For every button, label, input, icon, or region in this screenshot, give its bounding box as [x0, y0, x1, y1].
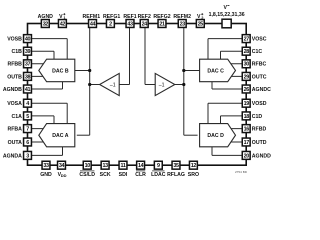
- pin 13 (SCK) box: [101, 161, 109, 169]
- pin 9 (LDAC) box: [154, 161, 162, 169]
- svg-text:DAC B: DAC B: [52, 68, 69, 74]
- wire RFBC to DAC C: [229, 63, 246, 65]
- pin 34 (VDD) box: [58, 161, 66, 169]
- svg-text:4: 4: [26, 101, 29, 107]
- wire AGNDD horizontal: [212, 154, 246, 156]
- pin 44 (REFM1) box: [89, 20, 97, 28]
- wire AGNDC horizontal: [212, 88, 246, 90]
- wire VOSB drop to DAC B: [66, 39, 68, 60]
- svg-text:37: 37: [25, 62, 31, 68]
- svg-text:VOSB: VOSB: [7, 37, 22, 43]
- svg-text:1,8,15,22,31,36: 1,8,15,22,31,36: [209, 12, 245, 18]
- svg-text:40: 40: [25, 37, 31, 43]
- svg-text:REFM1: REFM1: [83, 14, 101, 20]
- wire VOSD drop to DAC D: [207, 103, 209, 123]
- wire DAC B ref input to bus: [73, 69, 90, 71]
- wire DAC C ref input to bus: [184, 69, 202, 71]
- svg-text:30: 30: [244, 62, 250, 68]
- svg-text:16: 16: [244, 127, 250, 133]
- svg-text:AGNDD: AGNDD: [252, 153, 271, 159]
- pin 30 (RFBC) box: [242, 60, 250, 68]
- pin 5 (C1A) box: [24, 112, 32, 120]
- svg-text:17: 17: [244, 140, 250, 146]
- pin 41 (AGNDB) box: [24, 85, 32, 93]
- pin 7 (RFBA) box: [24, 125, 32, 133]
- svg-text:CS/LD: CS/LD: [79, 172, 95, 178]
- wire C1A drop to DAC A: [53, 116, 55, 124]
- svg-text:DAC A: DAC A: [52, 133, 68, 139]
- wire OUTC to DAC C: [229, 75, 246, 77]
- svg-text:RFLAG: RFLAG: [167, 172, 185, 178]
- op-amp U1 (reference inverter -1, left): [100, 73, 120, 95]
- svg-text:5: 5: [26, 114, 29, 120]
- wire AGNDA rise to DAC A: [62, 147, 64, 156]
- svg-text:2754 BD: 2754 BD: [235, 170, 248, 174]
- wire C1D drop to DAC D: [220, 116, 222, 124]
- wire REF1 pin 43 drop: [129, 24, 131, 85]
- pin 42 (VP1) box: [58, 20, 66, 28]
- svg-text:AGND: AGND: [38, 14, 54, 20]
- svg-text:33: 33: [43, 163, 49, 169]
- svg-text:VOSD: VOSD: [252, 101, 267, 107]
- svg-text:DAC C: DAC C: [207, 68, 224, 74]
- wire REFM1 bus vertical (pin 44 down to DAC A row): [89, 24, 91, 136]
- svg-text:2: 2: [109, 21, 112, 27]
- svg-text:44: 44: [90, 21, 96, 27]
- wire bus to DAC A ref input: [77, 134, 90, 136]
- svg-text:34: 34: [59, 163, 65, 169]
- pin 4 (VOSA) box: [24, 99, 32, 107]
- svg-text:SCK: SCK: [100, 172, 111, 178]
- svg-text:26: 26: [244, 87, 250, 93]
- pin 29 (OUTC) box: [242, 72, 250, 80]
- wire REFM2 bus vertical (pin 23 down to DAC D row): [183, 24, 185, 136]
- DAC B block: [39, 59, 75, 81]
- wire RFBB to DAC B: [28, 63, 46, 65]
- junction DAC B ref/bus: [88, 69, 91, 72]
- svg-text:42: 42: [60, 21, 66, 27]
- svg-text:28: 28: [244, 49, 250, 55]
- pin 6 (OUTA) box: [24, 138, 32, 146]
- svg-text:VOSC: VOSC: [252, 37, 267, 43]
- DAC C block: [200, 59, 236, 81]
- wire C1C horizontal: [221, 50, 247, 52]
- svg-text:GND: GND: [40, 172, 52, 178]
- pin 23 (REFM2) box: [178, 20, 186, 28]
- wire VOSA drop to DAC A: [66, 103, 68, 123]
- op-amp U2 (reference inverter -1, right): [155, 73, 175, 95]
- svg-text:C1A: C1A: [12, 114, 23, 120]
- label V+2 (pin 25): [197, 13, 204, 20]
- wire amp U2 output to bus: [175, 84, 184, 86]
- wire AGNDB rise to DAC B: [62, 82, 64, 89]
- pin 24 (REF2) box: [140, 20, 148, 28]
- label V- (negative supply): [223, 5, 229, 11]
- wire VOSC drop to DAC C: [207, 39, 209, 60]
- svg-text:12: 12: [191, 163, 197, 169]
- pin 38 (OUTB) box: [24, 72, 32, 80]
- svg-text:35: 35: [173, 163, 179, 169]
- svg-text:29: 29: [244, 74, 250, 80]
- svg-text:SRO: SRO: [188, 172, 199, 178]
- svg-text:VOSA: VOSA: [7, 101, 22, 107]
- wire RFBD to DAC D: [229, 128, 246, 130]
- wire RFBA to DAC A: [28, 128, 46, 130]
- svg-text:RFBA: RFBA: [7, 127, 22, 133]
- pin 32 (AGND) box: [41, 20, 49, 28]
- svg-text:23: 23: [180, 21, 186, 27]
- svg-text:AGNDC: AGNDC: [252, 87, 271, 93]
- wire VOSA horizontal: [28, 102, 68, 104]
- wire AGNDA horizontal: [28, 154, 63, 156]
- svg-text:6: 6: [26, 140, 29, 146]
- wire REF1 to amp U1 input: [119, 84, 129, 86]
- svg-text:27: 27: [244, 37, 250, 43]
- pin 28 (C1C) box: [242, 47, 250, 55]
- pin 20 (AGNDD) box: [242, 151, 250, 159]
- DAC A block: [39, 124, 75, 147]
- junction amp U1 out/bus: [88, 83, 91, 86]
- svg-text:REFM2: REFM2: [173, 14, 191, 20]
- svg-text:41: 41: [25, 87, 31, 93]
- wire C1C drop to DAC C: [220, 51, 222, 59]
- svg-text:OUTA: OUTA: [8, 140, 23, 146]
- wire VOSC horizontal: [208, 38, 246, 40]
- wire C1B drop to DAC B: [53, 51, 55, 59]
- svg-text:7: 7: [26, 127, 29, 133]
- pin V- multi-pin box (1,8,15,22,31,36): [222, 19, 231, 28]
- svg-text:11: 11: [121, 163, 126, 169]
- wire OUTA to DAC A: [28, 141, 46, 143]
- label VDD (pin 34): [58, 172, 67, 178]
- svg-text:25: 25: [198, 21, 204, 27]
- svg-text:–1: –1: [110, 82, 116, 88]
- pin 12 (SRO) box: [189, 161, 197, 169]
- svg-text:43: 43: [127, 21, 133, 27]
- label V+1 (pin 42): [59, 13, 66, 20]
- svg-text:DAC D: DAC D: [207, 133, 224, 139]
- wire AGNDD rise to DAC D: [211, 147, 213, 156]
- pin 39 (C1B) box: [24, 47, 32, 55]
- junction amp U2 out/bus: [182, 83, 185, 86]
- wire amp U1 output to bus: [90, 84, 100, 86]
- svg-text:–1: –1: [159, 82, 165, 88]
- svg-text:18: 18: [244, 114, 250, 120]
- pin 43 (REF1) box: [126, 20, 134, 28]
- svg-text:AGNDA: AGNDA: [3, 153, 22, 159]
- pin 3 (AGNDA) box: [24, 151, 32, 159]
- svg-text:32: 32: [43, 21, 49, 27]
- svg-text:REFG2: REFG2: [153, 14, 170, 20]
- wire C1D horizontal: [221, 115, 247, 117]
- wire REF2 to amp U2 input: [145, 84, 155, 86]
- wire C1A horizontal: [28, 115, 55, 117]
- svg-text:DD: DD: [61, 173, 67, 178]
- pin 37 (RFBB) box: [24, 60, 32, 68]
- wire C1B horizontal: [28, 50, 55, 52]
- svg-text:C1B: C1B: [12, 49, 23, 55]
- svg-text:C1D: C1D: [252, 114, 263, 120]
- pin 27 (VOSC) box: [242, 35, 250, 43]
- svg-text:RFBD: RFBD: [252, 127, 267, 133]
- svg-text:CLR: CLR: [135, 172, 146, 178]
- wire OUTB to DAC B: [28, 75, 46, 77]
- wire bus to DAC D ref input: [184, 134, 198, 136]
- wire VOSB horizontal: [28, 38, 68, 40]
- svg-text:V: V: [223, 5, 227, 11]
- pin 14 (CLR) box: [137, 161, 145, 169]
- wire VOSD horizontal: [208, 102, 246, 104]
- svg-text:39: 39: [25, 49, 31, 55]
- chip outline: [28, 24, 247, 166]
- svg-text:14: 14: [138, 163, 144, 169]
- wire OUTD to DAC D: [229, 141, 246, 143]
- svg-text:OUTC: OUTC: [252, 74, 267, 80]
- pin 25 (VP2) box: [196, 20, 204, 28]
- svg-text:38: 38: [25, 74, 31, 80]
- pin 18 (C1D) box: [242, 112, 250, 120]
- svg-text:3: 3: [26, 153, 29, 159]
- svg-text:10: 10: [85, 163, 91, 169]
- svg-text:RFBC: RFBC: [252, 62, 267, 68]
- svg-text:24: 24: [142, 21, 148, 27]
- pin 19 (VOSD) box: [242, 99, 250, 107]
- pin 35 (RFLAG) box: [172, 161, 180, 169]
- svg-text:C1C: C1C: [252, 49, 263, 55]
- pin 11 (SDI) box: [119, 161, 127, 169]
- svg-text:SDI: SDI: [119, 172, 128, 178]
- pin 33 (GND) box: [42, 161, 50, 169]
- junction DAC C ref/bus: [182, 69, 185, 72]
- svg-text:19: 19: [244, 101, 250, 107]
- pin 17 (OUTD) box: [242, 138, 250, 146]
- pin 26 (AGNDC) box: [242, 85, 250, 93]
- svg-text:OUTB: OUTB: [7, 74, 22, 80]
- svg-text:9: 9: [157, 163, 160, 169]
- pin 10 (CSLD) box: [83, 161, 91, 169]
- pin 21 (REFG2) box: [158, 20, 166, 28]
- svg-text:AGNDB: AGNDB: [3, 87, 22, 93]
- svg-text:OUTD: OUTD: [252, 140, 267, 146]
- wire REF2 pin 24 drop: [144, 24, 146, 85]
- svg-text:13: 13: [102, 163, 108, 169]
- DAC D block: [200, 124, 236, 147]
- wire AGNDB horizontal: [28, 88, 63, 90]
- svg-text:LDAC: LDAC: [151, 172, 166, 178]
- svg-text:REFG1: REFG1: [103, 14, 120, 20]
- pin 2 (REFG1) box: [106, 20, 114, 28]
- wire AGNDC rise to DAC C: [211, 82, 213, 89]
- svg-text:20: 20: [244, 153, 250, 159]
- svg-text:RFBB: RFBB: [7, 62, 22, 68]
- pin 40 (VOSB) box: [24, 35, 32, 43]
- svg-text:REF1: REF1: [123, 14, 136, 20]
- svg-text:REF2: REF2: [138, 14, 151, 20]
- svg-text:21: 21: [159, 21, 165, 27]
- pin 16 (RFBD) box: [242, 125, 250, 133]
